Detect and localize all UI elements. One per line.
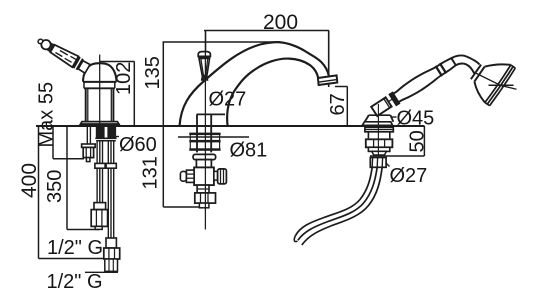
threaded connections below deck xyxy=(95,127,116,141)
svg-text:67: 67 xyxy=(327,93,349,115)
dimension 135 xyxy=(163,42,281,126)
spout body curves xyxy=(180,42,330,126)
svg-text:131: 131 xyxy=(140,156,162,189)
dimension 131 xyxy=(163,126,201,207)
svg-text:Ø27: Ø27 xyxy=(390,165,428,187)
cradle centerline xyxy=(377,104,379,156)
svg-text:50: 50 xyxy=(407,130,429,152)
dimension 400 xyxy=(39,126,109,259)
hand shower head face xyxy=(485,65,515,106)
svg-text:1/2" G: 1/2" G xyxy=(47,271,103,293)
spout Ø27 tube hidden lines xyxy=(197,114,225,152)
handle unit centerline xyxy=(99,55,101,127)
dimension 50 xyxy=(370,126,424,156)
mounting stud and nut xyxy=(82,126,96,162)
spout base flange stack xyxy=(189,133,220,160)
svg-text:200: 200 xyxy=(263,11,298,34)
hand shower neck xyxy=(451,55,479,73)
head tick xyxy=(489,84,514,86)
dimension Max 55 xyxy=(53,126,84,159)
label Ø45 leader xyxy=(391,116,397,118)
valve bottom port xyxy=(195,185,216,208)
hand shower head collar xyxy=(471,65,485,82)
head axis line xyxy=(473,72,517,90)
supply hose 1 xyxy=(91,142,107,230)
dimension 102 xyxy=(100,62,135,127)
dimension 67 xyxy=(335,87,348,127)
shower cradle cone and flange xyxy=(362,115,393,125)
hand shower head bell xyxy=(474,64,510,102)
svg-text:350: 350 xyxy=(44,170,66,203)
shower hose connector box xyxy=(370,158,386,168)
handle body xyxy=(86,88,114,121)
spout outlet aerator xyxy=(318,75,337,85)
label Ø27 hose leader xyxy=(383,160,390,167)
dimension 200 xyxy=(204,31,329,88)
svg-text:Ø60: Ø60 xyxy=(119,134,157,156)
deck line xyxy=(36,125,425,127)
valve right port xyxy=(214,169,227,184)
valve left port xyxy=(180,170,194,182)
svg-text:1/2" G: 1/2" G xyxy=(47,237,103,259)
svg-text:400: 400 xyxy=(18,163,41,198)
shower cradle cup xyxy=(371,95,398,116)
hand shower handle xyxy=(389,58,456,106)
svg-text:Ø81: Ø81 xyxy=(230,140,268,162)
dimension 350 xyxy=(67,126,99,230)
handle dome cap xyxy=(83,63,117,88)
spout centerline xyxy=(204,52,206,230)
lever handle xyxy=(37,38,90,73)
cradle lock nut stack below deck xyxy=(365,127,393,155)
shower hose xyxy=(294,167,382,245)
label Ø81 leader xyxy=(178,136,249,138)
spout valve body xyxy=(194,160,214,185)
label Ø60 leader xyxy=(108,136,119,138)
supply hose 2 xyxy=(85,142,120,273)
spout ornament knob xyxy=(198,52,210,80)
svg-text:Ø45: Ø45 xyxy=(397,108,435,130)
svg-text:135: 135 xyxy=(142,56,164,89)
handle base flange xyxy=(80,122,120,126)
